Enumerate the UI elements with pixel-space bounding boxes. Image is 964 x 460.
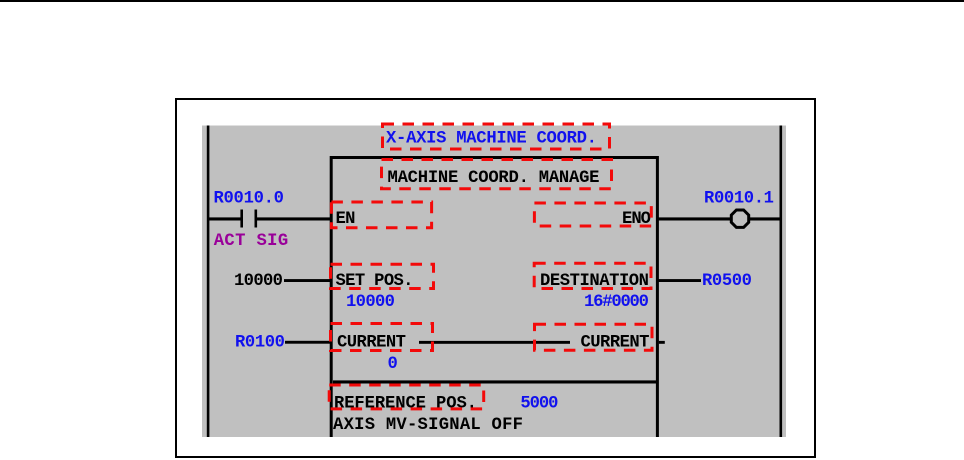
- highlight box: X-AXIS MACHINE COORD.: [383, 124, 610, 149]
- wire: contact to block EN pin: [257, 217, 332, 220]
- wire: coil to right rail: [749, 217, 781, 220]
- svg-text:ACT SIG: ACT SIG: [214, 232, 289, 251]
- highlight box: MACHINE COORD. MANAGE: [382, 160, 612, 189]
- svg-text:16#0000: 16#0000: [584, 293, 649, 312]
- wire: CURRENT output stub: [659, 341, 665, 344]
- svg-text:MACHINE COORD. MANAGE: MACHINE COORD. MANAGE: [388, 169, 600, 188]
- highlight box: DESTINATION: [534, 263, 651, 288]
- svg-text:R0500: R0500: [702, 272, 752, 291]
- contact R0010.0 left bar: [240, 210, 243, 228]
- left power rail: [207, 126, 210, 438]
- PLC screen background: [202, 126, 786, 438]
- svg-text:5000: 5000: [520, 394, 558, 413]
- svg-text:R0010.0: R0010.0: [214, 190, 285, 209]
- contact R0010.0 right bar: [255, 210, 258, 228]
- svg-text:REFERENCE POS.: REFERENCE POS.: [334, 394, 477, 413]
- function block internal divider: [333, 380, 657, 383]
- highlight box: CURRENT left: [331, 324, 433, 351]
- highlight box: EN: [331, 202, 431, 228]
- svg-text:R0100: R0100: [235, 334, 285, 353]
- wire: rail to contact R0010.0: [208, 217, 241, 220]
- wire: constant 10000 to SET POS. pin: [284, 279, 331, 282]
- highlight box: CURRENT right: [535, 324, 653, 350]
- function block U1 MACHINE COORD. MANAGE outline: [331, 158, 657, 438]
- svg-text:EN: EN: [336, 210, 356, 229]
- svg-text:10000: 10000: [346, 293, 395, 312]
- wire: internal CURRENT to CURRENT link: [419, 341, 570, 344]
- svg-text:0: 0: [388, 355, 398, 374]
- wire: block ENO pin to coil: [657, 217, 732, 220]
- wire: R0100 to CURRENT pin: [285, 341, 332, 344]
- svg-text:X-AXIS MACHINE COORD.: X-AXIS MACHINE COORD.: [386, 129, 597, 148]
- figure frame: [176, 99, 815, 457]
- highlight box: ENO: [534, 203, 651, 226]
- top page rule: [0, 0, 964, 2]
- svg-text:10000: 10000: [234, 272, 283, 291]
- wire: DESTINATION pin to R0500: [657, 279, 701, 282]
- highlight box: SET POS.: [331, 264, 434, 288]
- coil R0010.1 octagon: [731, 210, 748, 227]
- svg-text:R0010.1: R0010.1: [704, 190, 774, 209]
- svg-text:AXIS MV-SIGNAL OFF: AXIS MV-SIGNAL OFF: [333, 416, 523, 435]
- right power rail: [780, 126, 783, 438]
- highlight box: REFERENCE POS.: [329, 385, 484, 409]
